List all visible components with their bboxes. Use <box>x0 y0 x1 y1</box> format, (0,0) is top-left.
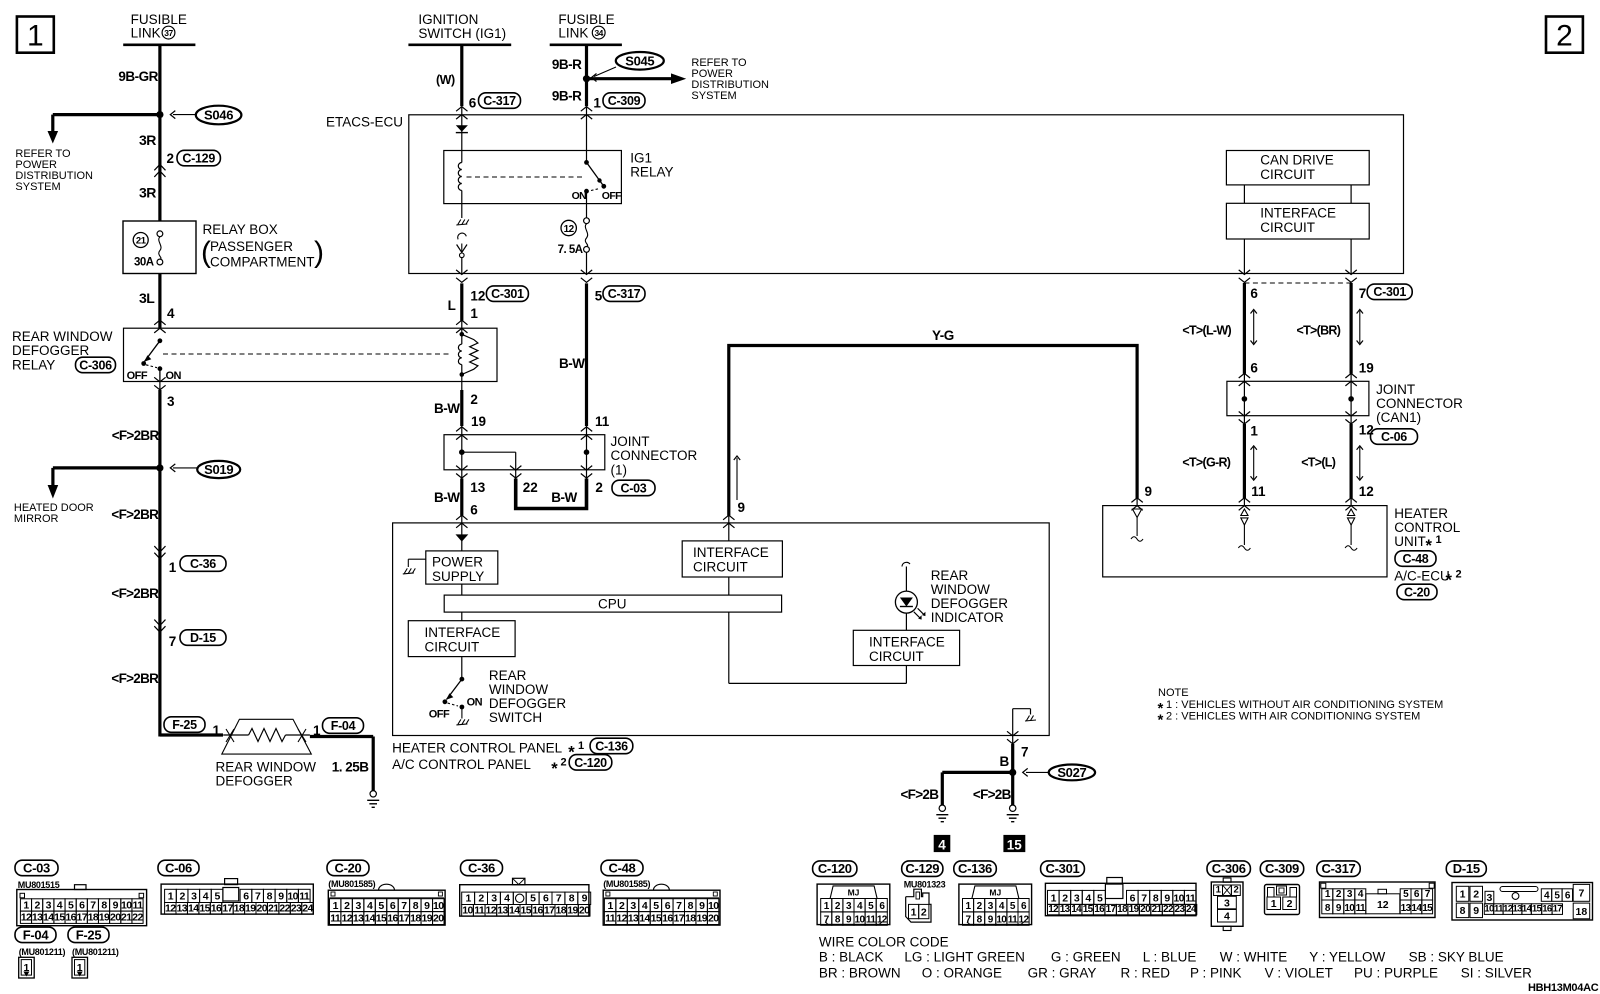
svg-text:4: 4 <box>504 893 510 905</box>
ground 15 <box>1007 805 1019 822</box>
svg-text:POWER: POWER <box>432 555 483 570</box>
svg-text:3: 3 <box>1347 889 1353 900</box>
connector label C-129 <box>902 861 946 890</box>
svg-text:9: 9 <box>1145 484 1153 499</box>
svg-text:7: 7 <box>169 634 177 649</box>
svg-text:17: 17 <box>1553 904 1563 915</box>
svg-text:7: 7 <box>401 900 407 912</box>
svg-text:22: 22 <box>279 902 290 914</box>
svg-text:1: 1 <box>465 893 471 905</box>
svg-text:6: 6 <box>665 900 671 912</box>
svg-text:CONNECTOR: CONNECTOR <box>1376 396 1463 411</box>
svg-text:B-W: B-W <box>434 490 460 505</box>
svg-text:22: 22 <box>1163 904 1174 915</box>
svg-text:8: 8 <box>977 915 983 926</box>
connector table C-309 <box>1265 885 1300 915</box>
wire interface to CPU <box>728 577 730 595</box>
connector table C-36 <box>460 860 591 916</box>
svg-text:S027: S027 <box>1057 765 1086 780</box>
ground ref 15 <box>1003 835 1025 852</box>
svg-text:B-W: B-W <box>434 401 460 416</box>
ground 4 <box>936 805 948 822</box>
wire B-W left (pin2) <box>434 382 478 435</box>
svg-text:15: 15 <box>1007 837 1023 852</box>
svg-text:C-306: C-306 <box>1212 861 1246 876</box>
svg-text:C-06: C-06 <box>1381 430 1407 444</box>
svg-text:16: 16 <box>532 904 543 916</box>
svg-text:(CAN1): (CAN1) <box>1376 410 1421 425</box>
splice S027 <box>1023 765 1095 781</box>
svg-text:14: 14 <box>509 904 520 916</box>
svg-text:*: * <box>551 760 558 778</box>
svg-text:1: 1 <box>1271 898 1277 910</box>
svg-text:9: 9 <box>1473 905 1479 917</box>
page marker 2 <box>1546 17 1583 53</box>
svg-text:4: 4 <box>642 900 648 912</box>
svg-text:C-120: C-120 <box>818 861 852 876</box>
svg-text:1: 1 <box>966 901 972 912</box>
power supply box <box>426 551 498 584</box>
svg-text:L: L <box>448 298 456 313</box>
svg-text:D-15: D-15 <box>1453 861 1480 876</box>
svg-text:SB : SKY BLUE: SB : SKY BLUE <box>1409 950 1504 965</box>
svg-text:LG : LIGHT GREEN: LG : LIGHT GREEN <box>904 950 1025 965</box>
svg-text:): ) <box>314 236 324 269</box>
svg-text:2: 2 <box>835 901 841 912</box>
svg-text:10: 10 <box>433 900 444 912</box>
svg-text:9B-R: 9B-R <box>552 57 582 72</box>
node S046 junction <box>156 111 163 118</box>
svg-text:C-129: C-129 <box>182 152 215 166</box>
defogger relay coil <box>458 328 478 381</box>
wire 3R upper <box>139 115 160 221</box>
svg-text:DEFOGGER: DEFOGGER <box>12 343 90 358</box>
svg-text:1: 1 <box>824 901 830 912</box>
connector table C-120 <box>817 884 890 925</box>
svg-text:1: 1 <box>168 891 174 903</box>
svg-text:9: 9 <box>278 891 284 903</box>
svg-text:JOINT: JOINT <box>611 434 650 449</box>
svg-text:2: 2 <box>595 480 603 495</box>
svg-text:R : RED: R : RED <box>1121 966 1171 981</box>
svg-text:INTERFACE: INTERFACE <box>693 545 769 560</box>
wires interface to ETACS edge <box>1244 239 1351 274</box>
svg-text:12: 12 <box>486 904 497 916</box>
wire <F>2BR 4 <box>111 622 159 737</box>
svg-text:20: 20 <box>257 902 268 914</box>
svg-text:P : PINK: P : PINK <box>1190 966 1242 981</box>
pin 13 label <box>470 480 486 495</box>
svg-text:C-03: C-03 <box>621 481 647 495</box>
svg-text:18: 18 <box>685 913 696 925</box>
svg-text:<F>2B: <F>2B <box>901 787 940 802</box>
svg-text:MJ: MJ <box>989 888 1001 898</box>
svg-text:C-06: C-06 <box>165 860 192 875</box>
svg-text:9: 9 <box>738 500 746 515</box>
pin 1 C-309 <box>581 93 645 119</box>
svg-text:4: 4 <box>167 306 175 321</box>
svg-text:O : ORANGE: O : ORANGE <box>922 966 1002 981</box>
svg-text:2: 2 <box>561 757 567 769</box>
svg-text:12: 12 <box>1503 904 1513 915</box>
connector table C-48 <box>601 860 720 925</box>
svg-text:10: 10 <box>996 915 1007 926</box>
svg-text:WIRE COLOR CODE: WIRE COLOR CODE <box>819 935 949 950</box>
heater unit internal pin11 <box>1238 509 1250 550</box>
svg-text:1: 1 <box>593 96 601 111</box>
svg-text:3: 3 <box>630 900 636 912</box>
wire 3L <box>139 274 160 329</box>
panel internal ground (right) <box>1013 709 1036 736</box>
pin 6 C-301 (CAN) <box>1250 286 1258 301</box>
svg-text:19: 19 <box>471 414 486 429</box>
svg-text:15: 15 <box>651 913 662 925</box>
svg-text:1: 1 <box>607 900 613 912</box>
wire 9B-R lower <box>552 79 587 107</box>
svg-text:DEFOGGER: DEFOGGER <box>489 696 567 711</box>
svg-text:20: 20 <box>708 913 719 925</box>
ignition switch IG1 <box>408 12 511 45</box>
svg-text:3: 3 <box>846 901 852 912</box>
svg-text:1: 1 <box>1436 534 1442 546</box>
svg-text:C-48: C-48 <box>609 860 636 875</box>
svg-text:W : WHITE: W : WHITE <box>1220 950 1288 965</box>
CAN1 exit chevrons <box>1239 412 1357 425</box>
svg-text:17: 17 <box>1106 904 1117 915</box>
svg-text:CIRCUIT: CIRCUIT <box>1260 220 1315 235</box>
svg-text:CONTROL: CONTROL <box>1394 520 1460 535</box>
wire <T>(L) <box>1301 416 1351 506</box>
connector table C-06 <box>158 860 313 914</box>
svg-text:14: 14 <box>1411 903 1422 914</box>
svg-text:3: 3 <box>191 891 197 903</box>
svg-text:10: 10 <box>1344 903 1355 914</box>
svg-text:IGNITION: IGNITION <box>418 12 478 27</box>
svg-text:17: 17 <box>399 913 410 925</box>
svg-text:ON: ON <box>572 190 587 202</box>
CPU bar <box>444 584 781 612</box>
wire to power distribution (left) <box>48 115 160 144</box>
wire (W) <box>436 45 462 106</box>
wire <F>2BR 2 <box>111 468 159 548</box>
svg-text:ON: ON <box>467 697 483 709</box>
svg-text:INTERFACE: INTERFACE <box>869 635 945 650</box>
svg-text:RELAY BOX: RELAY BOX <box>203 222 278 237</box>
svg-text:4: 4 <box>999 901 1005 912</box>
svg-text:7: 7 <box>1021 745 1029 760</box>
svg-text:13: 13 <box>497 904 508 916</box>
svg-text:4: 4 <box>1224 911 1230 923</box>
wire to power distribution (right) <box>587 73 687 84</box>
svg-text:5: 5 <box>214 891 220 903</box>
svg-text:18: 18 <box>234 902 245 914</box>
svg-text:<F>2B: <F>2B <box>973 787 1012 802</box>
svg-text:19: 19 <box>245 902 256 914</box>
pin 9 panel entry <box>723 456 745 528</box>
svg-text:(W): (W) <box>436 73 455 87</box>
svg-text:Y-G: Y-G <box>932 328 954 343</box>
joint connector CAN1 box <box>1227 381 1369 415</box>
svg-text:21: 21 <box>121 912 132 924</box>
defogger relay switch <box>127 338 182 382</box>
pin 11 joint connector <box>581 414 610 440</box>
svg-text:(: ( <box>201 236 211 269</box>
interface circuit box (ETACS) <box>1226 203 1369 239</box>
wire 9B-R upper <box>552 45 587 79</box>
svg-text:<F>2BR: <F>2BR <box>111 671 159 686</box>
connector C-129 inline <box>154 150 220 177</box>
arrow G-R <box>1251 446 1257 480</box>
ETACS-ECU box <box>326 115 1404 274</box>
svg-text:9: 9 <box>424 900 430 912</box>
svg-text:1: 1 <box>470 306 478 321</box>
rear window defogger element <box>222 719 311 754</box>
svg-text:(MU801585): (MU801585) <box>328 879 375 889</box>
svg-text:4: 4 <box>1085 893 1091 905</box>
wire <T>(G-R) <box>1182 416 1244 506</box>
svg-text:INTERFACE: INTERFACE <box>1260 206 1336 221</box>
svg-text:WINDOW: WINDOW <box>931 582 990 597</box>
svg-text:4: 4 <box>857 901 863 912</box>
connector table C-03 <box>15 860 147 926</box>
svg-text:2: 2 <box>478 893 484 905</box>
IG1 relay coil <box>458 151 462 204</box>
IG1 coil ground <box>456 204 469 225</box>
wire 1.25B <box>310 737 373 791</box>
svg-text:20: 20 <box>1140 904 1151 915</box>
wire into ETACS left <box>456 107 468 151</box>
svg-text:11: 11 <box>1185 893 1196 905</box>
svg-text:3: 3 <box>167 394 175 409</box>
svg-text:CIRCUIT: CIRCUIT <box>693 560 748 575</box>
wire color code line 2 <box>819 966 1532 981</box>
heater control unit box <box>1103 506 1387 577</box>
rear window defogger switch <box>429 657 483 725</box>
svg-text:9: 9 <box>699 900 705 912</box>
svg-text:12: 12 <box>1377 899 1389 911</box>
svg-text:7: 7 <box>255 891 261 903</box>
connector label C-120 <box>813 861 857 877</box>
svg-text:11: 11 <box>330 913 341 925</box>
svg-text:C-309: C-309 <box>1265 861 1299 876</box>
svg-text:<F>2BR: <F>2BR <box>111 507 159 522</box>
svg-text:HEATER: HEATER <box>1394 506 1448 521</box>
svg-text:*: * <box>1446 571 1453 589</box>
pin 9 heater unit entry <box>1131 484 1152 510</box>
svg-text:D-15: D-15 <box>190 631 216 645</box>
pin 1 (defogger relay coil) <box>456 306 478 333</box>
svg-text:21: 21 <box>268 902 279 914</box>
svg-text:RELAY: RELAY <box>630 165 673 180</box>
splice S046 <box>170 106 241 125</box>
connector label D-15 <box>1446 861 1486 877</box>
wire color code title <box>819 935 949 950</box>
svg-text:8: 8 <box>1460 905 1466 917</box>
svg-text:1: 1 <box>911 907 917 919</box>
svg-text:5: 5 <box>1554 891 1560 902</box>
svg-text:17: 17 <box>544 904 555 916</box>
svg-text:6: 6 <box>879 901 885 912</box>
svg-text:4: 4 <box>367 900 373 912</box>
wire L <box>460 283 463 328</box>
joint connector exit chevrons <box>456 466 592 479</box>
svg-text:2: 2 <box>1062 893 1068 905</box>
svg-text:Y : YELLOW: Y : YELLOW <box>1309 950 1385 965</box>
wire B panel exit <box>1000 731 1029 772</box>
svg-text:17: 17 <box>222 902 233 914</box>
svg-text:5: 5 <box>378 900 384 912</box>
svg-text:5: 5 <box>1403 889 1409 900</box>
power supply ground <box>403 559 426 574</box>
heater control panel box <box>393 523 1050 736</box>
svg-text:2 : VEHICLES WITH AIR CONDITIO: 2 : VEHICLES WITH AIR CONDITIONING SYSTE… <box>1166 711 1420 723</box>
svg-text:1: 1 <box>1216 885 1222 896</box>
svg-text:22: 22 <box>523 480 538 495</box>
svg-text:9: 9 <box>582 893 588 905</box>
svg-text:OFF: OFF <box>429 709 450 721</box>
IG1 relay dashed link <box>467 176 584 178</box>
svg-text:2: 2 <box>1287 898 1293 910</box>
label heater control unit <box>1394 506 1461 600</box>
svg-text:15: 15 <box>199 902 210 914</box>
svg-text:15: 15 <box>1532 904 1543 915</box>
svg-text:12: 12 <box>616 913 627 925</box>
arrow BR <box>1357 310 1363 345</box>
svg-text:<F>2BR: <F>2BR <box>111 586 159 601</box>
svg-text:5: 5 <box>653 900 659 912</box>
svg-text:REAR: REAR <box>489 668 527 683</box>
svg-text:7: 7 <box>1578 888 1584 900</box>
svg-text:1: 1 <box>1460 889 1466 901</box>
pin 7 C-301 (CAN) <box>1359 284 1413 301</box>
relay box (passenger compartment) fuse 21 <box>123 221 196 274</box>
svg-text:12: 12 <box>1359 484 1374 499</box>
svg-text:HEATER CONTROL PANEL: HEATER CONTROL PANEL <box>392 740 563 755</box>
svg-text:A/C CONTROL PANEL: A/C CONTROL PANEL <box>392 757 531 772</box>
svg-text:CONNECTOR: CONNECTOR <box>611 448 698 463</box>
pin 3 defogger relay <box>154 377 175 409</box>
svg-text:LINK: LINK <box>558 26 588 41</box>
svg-text:3: 3 <box>491 893 497 905</box>
CAN drive circuit box <box>1226 151 1369 185</box>
svg-text:9: 9 <box>988 915 994 926</box>
svg-text:6: 6 <box>243 891 249 903</box>
svg-text:CPU: CPU <box>598 597 627 612</box>
svg-text:1: 1 <box>27 20 44 53</box>
wire B-W U-loop 22 to 2 <box>516 470 587 509</box>
svg-text:SWITCH (IG1): SWITCH (IG1) <box>418 26 506 41</box>
svg-text:18: 18 <box>88 912 99 924</box>
svg-text:11: 11 <box>595 414 610 429</box>
svg-text:12: 12 <box>470 288 485 303</box>
svg-text:10: 10 <box>1484 904 1494 915</box>
svg-text:6: 6 <box>543 893 549 905</box>
svg-text:15: 15 <box>1422 903 1433 914</box>
pin 19 joint connector <box>456 414 486 440</box>
svg-text:19: 19 <box>1129 904 1140 915</box>
svg-text:C-48: C-48 <box>1403 552 1429 566</box>
svg-text:30A: 30A <box>134 257 154 269</box>
svg-text:8: 8 <box>101 899 107 911</box>
connector table F-25 <box>68 927 119 978</box>
wire <F>2BR 3 <box>111 548 159 622</box>
svg-text:37: 37 <box>164 28 173 38</box>
svg-text:10: 10 <box>855 915 866 926</box>
pin 1 label CAN1 <box>1250 424 1258 439</box>
fusible link 37 <box>123 12 195 45</box>
svg-text:INDICATOR: INDICATOR <box>931 610 1004 625</box>
svg-text:C-317: C-317 <box>1322 861 1356 876</box>
svg-text:13: 13 <box>353 913 364 925</box>
label rear window defogger switch <box>489 668 567 725</box>
svg-text:7. 5A: 7. 5A <box>558 244 583 256</box>
svg-text:C-317: C-317 <box>483 94 516 108</box>
label joint connector (1) <box>611 434 698 496</box>
svg-text:21: 21 <box>1152 904 1163 915</box>
svg-text:9: 9 <box>113 899 119 911</box>
svg-text:(1): (1) <box>611 463 628 478</box>
svg-text:19: 19 <box>422 913 433 925</box>
svg-text:C-317: C-317 <box>608 287 641 301</box>
svg-text:11: 11 <box>474 904 485 916</box>
connector table C-129 <box>906 889 931 922</box>
node S019 junction <box>156 464 163 471</box>
svg-text:PU : PURPLE: PU : PURPLE <box>1354 966 1438 981</box>
connector D-15 inline <box>154 620 226 649</box>
svg-text:UNIT: UNIT <box>1394 534 1426 549</box>
svg-text:16: 16 <box>1542 904 1552 915</box>
svg-text:9: 9 <box>1336 903 1342 914</box>
svg-text:9: 9 <box>846 915 852 926</box>
svg-text:6: 6 <box>1414 889 1420 900</box>
svg-text:5: 5 <box>1097 893 1103 905</box>
svg-text:WINDOW: WINDOW <box>489 682 548 697</box>
svg-text:3: 3 <box>46 899 52 911</box>
pin 12 label CAN1 <box>1359 423 1374 438</box>
node S027 junction <box>1009 769 1016 776</box>
svg-text:5: 5 <box>530 893 536 905</box>
svg-text:12: 12 <box>21 912 32 924</box>
svg-text:4: 4 <box>203 891 209 903</box>
svg-text:3: 3 <box>988 901 994 912</box>
pin 12 heater unit <box>1345 484 1373 510</box>
svg-text:<T>(L-W): <T>(L-W) <box>1182 323 1231 337</box>
svg-text:8: 8 <box>835 915 841 926</box>
svg-text:6: 6 <box>1021 901 1027 912</box>
svg-text:F-04: F-04 <box>331 719 356 733</box>
connector label C-301 <box>1041 861 1085 877</box>
label refer to power distribution system (left) <box>15 148 93 193</box>
svg-text:REAR WINDOW: REAR WINDOW <box>216 760 317 775</box>
svg-text:V : VIOLET: V : VIOLET <box>1265 966 1333 981</box>
svg-text:8: 8 <box>1325 903 1331 914</box>
svg-text:1: 1 <box>1051 893 1057 905</box>
svg-text:16: 16 <box>662 913 673 925</box>
svg-text:C-36: C-36 <box>468 860 495 875</box>
svg-text:6: 6 <box>469 96 477 111</box>
svg-text:10: 10 <box>121 899 132 911</box>
svg-text:2: 2 <box>977 901 983 912</box>
svg-text:4: 4 <box>938 837 946 852</box>
svg-text:2: 2 <box>179 891 185 903</box>
svg-text:4: 4 <box>57 899 63 911</box>
CAN dashed link <box>1244 282 1351 284</box>
svg-text:2: 2 <box>1233 885 1238 896</box>
svg-text:2: 2 <box>1336 889 1342 900</box>
svg-text:CIRCUIT: CIRCUIT <box>869 649 924 664</box>
svg-text:ETACS-ECU: ETACS-ECU <box>326 115 403 130</box>
pin 6 C-317 <box>456 93 520 119</box>
